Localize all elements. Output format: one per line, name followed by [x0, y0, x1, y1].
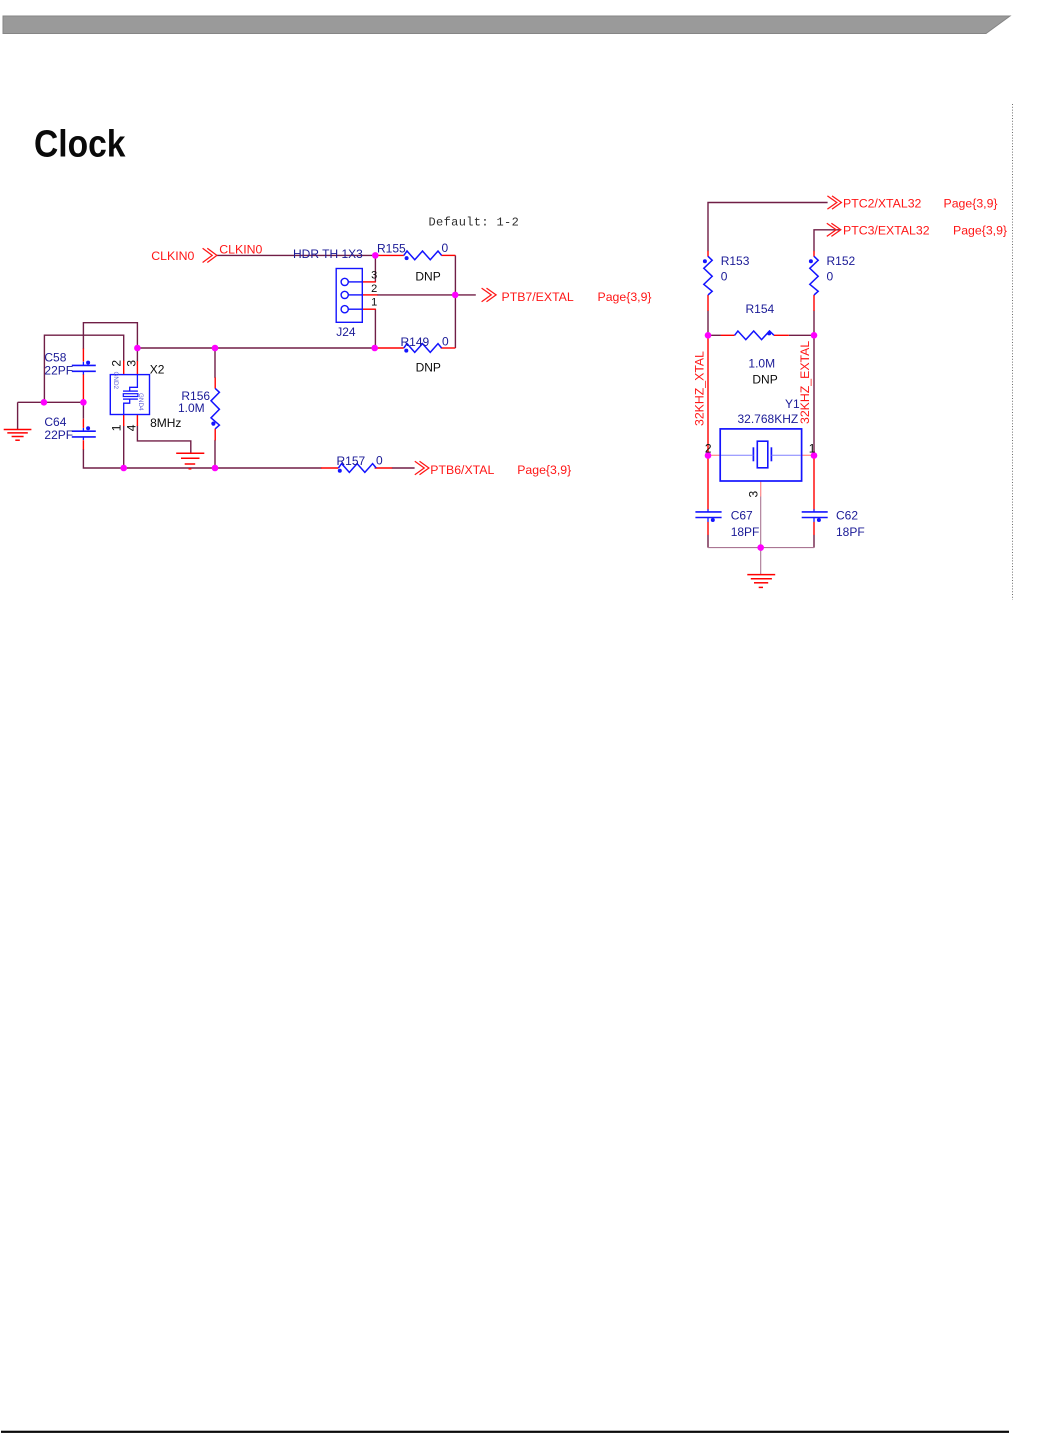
svg-text:HDR TH 1X3: HDR TH 1X3: [293, 247, 363, 261]
svg-text:0: 0: [442, 334, 449, 348]
svg-text:Y1: Y1: [785, 397, 800, 411]
svg-text:R149: R149: [401, 335, 430, 349]
svg-text:Default: 1-2: Default: 1-2: [429, 216, 520, 230]
svg-text:PTC2/XTAL32: PTC2/XTAL32: [843, 196, 922, 210]
svg-text:C62: C62: [836, 509, 858, 523]
svg-text:R153: R153: [721, 254, 750, 268]
svg-text:DNP: DNP: [752, 373, 777, 387]
svg-text:PTC3/EXTAL32: PTC3/EXTAL32: [843, 223, 930, 237]
svg-text:PTB7/EXTAL: PTB7/EXTAL: [502, 290, 574, 304]
svg-text:C67: C67: [731, 509, 753, 523]
svg-text:Clock: Clock: [34, 124, 126, 166]
svg-text:PTB6/XTAL: PTB6/XTAL: [430, 463, 494, 477]
svg-text:R152: R152: [827, 254, 856, 268]
svg-text:DNP: DNP: [415, 269, 440, 283]
svg-text:1.0M: 1.0M: [178, 401, 205, 415]
svg-text:2: 2: [110, 360, 124, 367]
svg-text:3: 3: [747, 491, 761, 498]
svg-text:0: 0: [721, 270, 728, 284]
svg-text:R157: R157: [337, 454, 366, 468]
svg-text:R155: R155: [377, 241, 406, 255]
svg-text:Page{3,9}: Page{3,9}: [944, 196, 998, 210]
svg-text:32KHZ_EXTAL: 32KHZ_EXTAL: [798, 341, 812, 424]
svg-text:R154: R154: [746, 302, 775, 316]
svg-text:32.768KHZ: 32.768KHZ: [738, 412, 799, 426]
svg-text:CLKIN0: CLKIN0: [219, 243, 262, 257]
svg-text:3: 3: [371, 269, 377, 281]
svg-text:0: 0: [442, 241, 449, 255]
svg-text:18PF: 18PF: [836, 525, 865, 539]
svg-text:3: 3: [124, 360, 138, 367]
svg-text:22PF: 22PF: [44, 428, 73, 442]
svg-text:1.0M: 1.0M: [748, 357, 775, 371]
svg-text:1: 1: [371, 296, 377, 308]
svg-text:DNP: DNP: [416, 361, 441, 375]
svg-text:0: 0: [827, 270, 834, 284]
svg-text:1: 1: [110, 424, 124, 431]
svg-text:X2: X2: [150, 362, 165, 376]
svg-text:Page{3,9}: Page{3,9}: [517, 463, 571, 477]
svg-text:Page{3,9}: Page{3,9}: [598, 290, 652, 304]
svg-text:4: 4: [124, 424, 138, 431]
svg-text:32KHZ_XTAL: 32KHZ_XTAL: [693, 351, 707, 426]
svg-text:18PF: 18PF: [731, 525, 760, 539]
svg-text:0: 0: [376, 453, 383, 467]
svg-text:J24: J24: [336, 325, 356, 339]
svg-text:Page{3,9}: Page{3,9}: [953, 223, 1007, 237]
svg-text:CLKIN0: CLKIN0: [151, 249, 194, 263]
svg-text:1: 1: [809, 442, 816, 456]
svg-text:2: 2: [705, 442, 712, 456]
svg-text:8MHz: 8MHz: [150, 416, 181, 430]
svg-text:GND4: GND4: [137, 393, 144, 411]
svg-text:GND2: GND2: [112, 372, 119, 390]
svg-text:2: 2: [371, 283, 377, 295]
svg-text:22PF: 22PF: [44, 363, 73, 377]
